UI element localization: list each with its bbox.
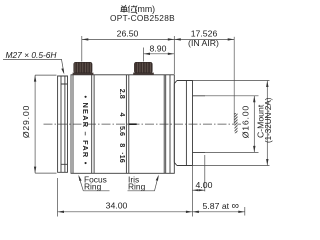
svg-text:5.87 at ∞: 5.87 at ∞ — [203, 200, 239, 212]
svg-text:Ø16.00: Ø16.00 — [240, 105, 250, 138]
svg-text:(1-32UN-2A): (1-32UN-2A) — [264, 97, 273, 143]
svg-text:Ring: Ring — [128, 182, 146, 192]
svg-text:·16: ·16 — [118, 152, 127, 162]
svg-text:8: 8 — [118, 143, 127, 147]
svg-text:2.8: 2.8 — [118, 89, 127, 99]
svg-text:OPT-COB2528B: OPT-COB2528B — [110, 13, 175, 23]
svg-text:4: 4 — [118, 113, 127, 117]
svg-text:M27 × 0.5-6H: M27 × 0.5-6H — [6, 50, 58, 60]
svg-text:(IN AIR): (IN AIR) — [188, 38, 219, 48]
svg-text:26.50: 26.50 — [117, 29, 139, 39]
svg-text:5.6: 5.6 — [118, 126, 127, 136]
svg-text:• NEAR – FAR •: • NEAR – FAR • — [81, 95, 90, 165]
svg-text:Ring: Ring — [84, 182, 102, 192]
svg-text:8.90: 8.90 — [150, 44, 167, 54]
svg-text:34.00: 34.00 — [106, 201, 128, 211]
svg-text:4.00: 4.00 — [196, 180, 213, 190]
svg-text:Ø29.00: Ø29.00 — [21, 105, 31, 138]
